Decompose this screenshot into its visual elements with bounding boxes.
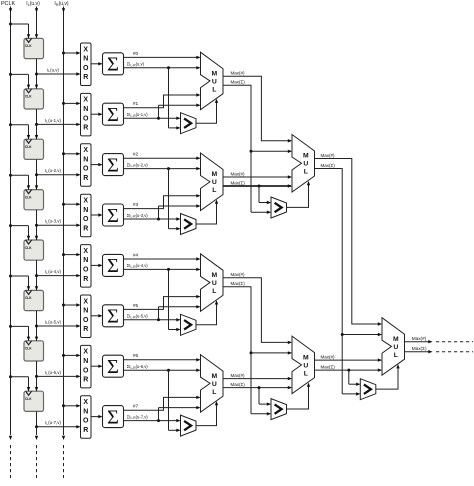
svg-text:Max(Σ): Max(Σ) (231, 80, 246, 85)
svg-text:#6: #6 (133, 353, 139, 359)
svg-text:IL(u-2,v): IL(u-2,v) (45, 168, 61, 174)
net label SUM IL-R(u-1,v) (127, 112, 149, 118)
svg-text:O: O (83, 367, 89, 374)
net label Max(#) MUX22 (321, 355, 336, 360)
wire SUM5 value to comparator (124, 318, 181, 321)
svg-text:Max(Σ): Max(Σ) (412, 346, 427, 351)
wire XNOR5 to SUM5 (91, 314, 103, 317)
wire XNOR1 to SUM1 (91, 113, 103, 116)
svg-text:Max(#): Max(#) (231, 373, 246, 378)
wire IR stub to XNOR5 (62, 303, 81, 306)
wire IR stub to XNOR2 (62, 152, 81, 155)
svg-text:IL(u,v): IL(u,v) (47, 67, 59, 73)
svg-text:Max(Σ): Max(Σ) (321, 365, 336, 370)
wire SUM6 value to mux (124, 369, 201, 372)
node IL(u-1,v) tap (35, 123, 38, 126)
svg-text:N: N (83, 308, 88, 315)
svg-text:Σ: Σ (107, 356, 119, 378)
wire MUX22 Max(S) to MUX3 input4 (315, 368, 383, 371)
svg-text:M: M (303, 153, 309, 160)
svg-text:U: U (212, 280, 217, 287)
wire IR stub to XNOR7 (62, 404, 81, 407)
node IL(u,v) tap (35, 73, 38, 76)
svg-text:ΣIL-R(u-7,v): ΣIL-R(u-7,v) (127, 414, 149, 420)
svg-text:CLK: CLK (25, 145, 32, 149)
svg-text:M: M (211, 171, 217, 178)
wire FF6 output to FF7 data input (35, 311, 38, 341)
node IL(u-5,v) tap (35, 325, 38, 328)
wire IL tap to XNOR4 (37, 274, 81, 277)
svg-text:IL(u-7,v): IL(u-7,v) (45, 420, 61, 426)
svg-text:X: X (83, 349, 88, 356)
flip-flop FF6 (24, 290, 44, 310)
svg-text:ΣIL-R(u,v): ΣIL-R(u,v) (127, 62, 145, 68)
svg-text:Σ: Σ (107, 154, 119, 176)
accumulator SUM7 (103, 406, 124, 429)
svg-text:#4: #4 (133, 252, 139, 258)
net label IL(u-5,v) (45, 319, 61, 325)
wire IR trunk (62, 7, 65, 441)
wire MUX22 Max(#) to MUX3 input3 (315, 358, 383, 361)
svg-text:M: M (211, 70, 217, 77)
svg-text:U: U (212, 179, 217, 186)
svg-text:CLK: CLK (25, 347, 32, 351)
net label Max(S) MUX21 (321, 163, 336, 168)
wire SUM1 value branch to mux (159, 104, 201, 119)
net label IL(u,v) input (26, 1, 40, 7)
svg-text:#5: #5 (133, 303, 139, 309)
wire PCLK branch to FF7 clock (9, 325, 30, 341)
wire IL data trunk top (35, 7, 38, 39)
wire CMP2 to mux select (196, 200, 218, 225)
svg-text:CLK: CLK (25, 296, 32, 300)
wire IL tap to XNOR7 (37, 425, 81, 428)
comparator CMP2 (181, 214, 197, 235)
net label Max(S) MUX2 (231, 180, 246, 185)
svg-text:Σ: Σ (107, 54, 119, 76)
net label Max(S) MUX22 (321, 365, 336, 370)
svg-text:R: R (83, 225, 88, 232)
wire MUX3 Max(S) output (405, 350, 433, 353)
wire SUM0 index to mux (124, 56, 201, 59)
svg-text:U: U (212, 381, 217, 388)
svg-text:M: M (211, 373, 217, 380)
net label Max(S) output (412, 346, 427, 351)
svg-text:R: R (83, 74, 88, 81)
svg-text:#1: #1 (133, 101, 139, 107)
net label Max(#) output (412, 336, 427, 341)
mux MUX2 (201, 153, 224, 211)
wire MUX21 Max(S) to MUX3 input2 (315, 169, 383, 337)
wire XNOR7 to SUM7 (91, 415, 103, 418)
wire MUX3 Max(S) to MUX22 input2 (223, 287, 292, 355)
wire XNOR2 to SUM2 (91, 163, 103, 166)
wire SUM1 value to comparator (124, 117, 181, 120)
svg-text:Max(#): Max(#) (321, 355, 336, 360)
wire XNOR3 to SUM3 (91, 213, 103, 216)
wire IL tap to XNOR0 (37, 72, 81, 75)
xnor gate XNOR3 (81, 194, 92, 237)
comparator CMP4 (181, 415, 197, 436)
wire SUM2 value branch to comparator (169, 169, 181, 231)
net label #7 (133, 404, 139, 410)
wire FF1 output to FF2 data input (35, 59, 38, 89)
svg-text:X: X (83, 46, 88, 53)
svg-text:R: R (83, 276, 88, 283)
accumulator SUM2 (103, 154, 124, 177)
wire SUM3 value to comparator (124, 217, 181, 220)
svg-text:IL(u-6,v): IL(u-6,v) (45, 370, 61, 376)
svg-text:N: N (83, 106, 88, 113)
wire IR trunk dashed continuation (63, 445, 65, 478)
svg-text:IL(u-3,v): IL(u-3,v) (45, 219, 61, 225)
wire CMP3 to mux select (196, 300, 218, 325)
mux MUX21 (292, 135, 315, 193)
wire PCLK branch to FF4 clock (9, 174, 30, 190)
svg-text:M: M (211, 272, 217, 279)
wire SUM4 value branch to comparator (169, 269, 181, 331)
wire SUM1 index to mux (124, 93, 201, 108)
wire MUX4 Max(S) branch to comparator CMP22 (259, 388, 271, 406)
accumulator SUM4 (103, 254, 124, 277)
net label #2 (133, 152, 139, 158)
wire FF3 output to FF4 data input (35, 159, 38, 189)
accumulator SUM6 (103, 355, 124, 378)
wire MUX1 Max(S) branch to comparator CMP21 (251, 151, 271, 214)
svg-text:ΣIL-R(u-6,v): ΣIL-R(u-6,v) (127, 364, 149, 370)
wire SUM5 index to mux (124, 295, 201, 310)
net label IL(u,v) (47, 67, 59, 73)
wire SUM6 value branch to comparator (169, 370, 181, 432)
wire XNOR4 to SUM4 (91, 264, 103, 267)
svg-text:PCLK: PCLK (1, 1, 15, 7)
node IL(u-7,v) tap (35, 425, 38, 428)
net label #3 (133, 202, 139, 208)
svg-text:L: L (212, 187, 216, 194)
svg-text:U: U (303, 161, 308, 168)
xnor gate XNOR2 (81, 144, 92, 187)
wire FF8 output tail (35, 411, 38, 440)
wire SUM3 value branch to mux (159, 204, 201, 219)
svg-text:M: M (303, 354, 309, 361)
comparator CMP3 (181, 314, 197, 335)
wire IL chain dashed continuation (36, 445, 38, 478)
net label IL(u-4,v) (45, 269, 61, 275)
svg-text:Max(Σ): Max(Σ) (231, 180, 246, 185)
comparator CMP3 (360, 379, 376, 400)
svg-text:#3: #3 (133, 202, 139, 208)
flip-flop FF4 (24, 190, 44, 210)
net label #5 (133, 303, 139, 309)
svg-text:#7: #7 (133, 404, 139, 410)
svg-text:X: X (83, 97, 88, 104)
wire MUX3 Max(#) output (405, 340, 433, 343)
wire CMP4 to mux select (196, 401, 218, 426)
wire MUX21 Max(S) branch to comparator CMP3 (342, 335, 360, 396)
svg-text:Max(#): Max(#) (231, 171, 246, 176)
svg-text:Σ: Σ (107, 306, 119, 328)
svg-text:N: N (83, 358, 88, 365)
comparator CMP1 (181, 113, 197, 134)
svg-text:N: N (83, 207, 88, 214)
wire Max(#) dashed continuation (436, 341, 473, 343)
net label IL(u-6,v) (45, 370, 61, 376)
xnor gate XNOR6 (81, 345, 92, 388)
svg-text:ΣIL-R(u-2,v): ΣIL-R(u-2,v) (127, 162, 149, 168)
wire IL tap to XNOR6 (37, 375, 81, 378)
svg-text:Max(#): Max(#) (231, 71, 246, 76)
wire FF5 output to FF6 data input (35, 260, 38, 290)
svg-text:Σ: Σ (107, 255, 119, 277)
accumulator SUM0 (103, 53, 124, 76)
svg-text:IL(u-5,v): IL(u-5,v) (45, 319, 61, 325)
wire SUM3 index to mux (124, 194, 201, 209)
net label SUM IL-R(u-3,v) (127, 213, 149, 219)
xnor gate XNOR4 (81, 245, 92, 288)
wire PCLK branch to FF8 clock (9, 375, 30, 391)
wire CMP22 to MUX22 select (287, 383, 311, 409)
flip-flop FF7 (24, 341, 44, 361)
svg-text:U: U (303, 362, 308, 369)
wire MUX1 Max(S) to MUX21 input2 (223, 85, 292, 153)
net label IL(u-3,v) (45, 219, 61, 225)
net label Max(S) MUX3 (231, 281, 246, 286)
wire IL tap to XNOR1 (37, 123, 81, 126)
wire MUX3 Max(S) branch to comparator CMP22 (251, 353, 271, 416)
wire SUM5 value branch to mux (159, 305, 201, 320)
net label #1 (133, 101, 139, 107)
wire SUM4 value to mux (124, 268, 201, 271)
svg-text:R: R (83, 175, 88, 182)
wire IR stub to XNOR6 (62, 354, 81, 357)
svg-text:ΣIL-R(u-5,v): ΣIL-R(u-5,v) (127, 314, 149, 320)
svg-text:X: X (83, 248, 88, 255)
net label SUM IL-R(u-2,v) (127, 162, 149, 168)
wire MUX2 Max(S) to MUX21 input4 (223, 184, 292, 187)
svg-text:ΣIL-R(u-3,v): ΣIL-R(u-3,v) (127, 213, 149, 219)
net label PCLK (1, 1, 15, 7)
wire MUX3 Max(#) to MUX22 input1 (223, 278, 292, 344)
wire PCLK branch to FF5 clock (9, 224, 30, 240)
svg-text:L: L (212, 86, 216, 93)
node IL(u-6,v) tap (35, 375, 38, 378)
comparator CMP21 (271, 197, 287, 218)
wire IR stub to XNOR3 (62, 203, 81, 206)
wire MUX22 Max(S) branch to comparator CMP3 (349, 370, 361, 386)
net label Max(#) MUX2 (231, 171, 246, 176)
svg-text:O: O (83, 216, 89, 223)
wire MUX21 Max(#) to MUX3 input1 (315, 159, 383, 326)
svg-text:O: O (83, 166, 89, 173)
svg-text:X: X (83, 198, 88, 205)
wire SUM7 index to mux (124, 396, 201, 411)
net label Max(S) MUX1 (231, 80, 246, 85)
accumulator SUM3 (103, 204, 124, 227)
net label #4 (133, 252, 139, 258)
flip-flop FF2 (24, 89, 44, 109)
wire PCLK branch to FF3 clock (9, 123, 30, 139)
svg-text:Max(#): Max(#) (321, 153, 336, 158)
svg-text:X: X (83, 147, 88, 154)
accumulator SUM1 (103, 103, 124, 126)
wire SUM0 value branch to comparator (169, 68, 181, 130)
wire PCLK branch to FF1 clock (9, 23, 30, 39)
svg-text:X: X (83, 399, 88, 406)
wire SUM2 index to mux (124, 157, 201, 160)
wire XNOR6 to SUM6 (91, 365, 103, 368)
svg-text:N: N (83, 156, 88, 163)
net label Max(S) MUX4 (231, 382, 246, 387)
wire SUM7 value to comparator (124, 419, 181, 422)
svg-text:L: L (212, 288, 216, 295)
svg-text:L: L (394, 352, 398, 359)
svg-text:O: O (83, 317, 89, 324)
net label IL(u-7,v) (45, 420, 61, 426)
svg-text:M: M (393, 336, 399, 343)
svg-text:R: R (83, 377, 88, 384)
svg-text:L: L (212, 389, 216, 396)
node IL(u-2,v) tap (35, 173, 38, 176)
wire MUX4 Max(#) to MUX22 input3 (223, 377, 292, 380)
svg-text:ΣIL-R(u-4,v): ΣIL-R(u-4,v) (127, 263, 149, 269)
net label Max(#) MUX3 (231, 272, 246, 277)
wire FF4 output to FF5 data input (35, 210, 38, 240)
wire Max(S) dashed continuation (436, 351, 473, 353)
wire IR stub to XNOR4 (62, 253, 81, 256)
wire MUX2 Max(S) branch to comparator CMP21 (259, 186, 271, 204)
flip-flop FF8 (24, 391, 44, 411)
flip-flop FF5 (24, 240, 44, 260)
node IL(u-4,v) tap (35, 274, 38, 277)
accumulator SUM5 (103, 305, 124, 328)
svg-text:L: L (304, 169, 308, 176)
svg-text:O: O (83, 115, 89, 122)
mux MUX22 (292, 336, 315, 394)
wire MUX1 Max(#) to MUX21 input1 (223, 76, 292, 142)
wire MUX2 Max(#) to MUX21 input3 (223, 175, 292, 178)
xnor gate XNOR1 (81, 93, 92, 135)
net label #0 (133, 51, 139, 57)
wire SUM2 value to mux (124, 167, 201, 170)
svg-text:CLK: CLK (25, 397, 32, 401)
svg-text:#2: #2 (133, 152, 139, 158)
wire IL tap to XNOR2 (37, 173, 81, 176)
wire SUM4 index to mux (124, 257, 201, 260)
svg-text:IL(u-4,v): IL(u-4,v) (45, 269, 61, 275)
svg-text:R: R (83, 427, 88, 434)
svg-text:Max(#): Max(#) (231, 272, 246, 277)
svg-text:U: U (393, 344, 398, 351)
wire IR stub to XNOR0 (62, 51, 81, 54)
svg-text:Max(Σ): Max(Σ) (231, 382, 246, 387)
wire MUX4 Max(S) to MUX22 input4 (223, 386, 292, 389)
net label SUM IL-R(u-6,v) (127, 364, 149, 370)
net label #6 (133, 353, 139, 359)
wire FF7 output to FF8 data input (35, 361, 38, 391)
svg-text:CLK: CLK (25, 246, 32, 250)
flip-flop FF1 (24, 38, 44, 58)
wire PCLK trunk (9, 7, 12, 441)
wire SUM7 value branch to mux (159, 406, 201, 421)
svg-text:Max(Σ): Max(Σ) (321, 163, 336, 168)
wire PCLK branch to FF6 clock (9, 275, 30, 291)
svg-text:ΣIL-R(u-1,v): ΣIL-R(u-1,v) (127, 112, 149, 118)
wire XNOR0 to SUM0 (91, 62, 103, 65)
wire PCLK branch to FF2 clock (9, 73, 30, 89)
svg-text:Σ: Σ (107, 104, 119, 126)
wire CMP21 to MUX21 select (287, 181, 311, 207)
wire CMP3 to MUX3 select (376, 364, 400, 389)
wire IR stub to XNOR1 (62, 102, 81, 105)
svg-text:O: O (83, 267, 89, 274)
svg-text:Σ: Σ (107, 205, 119, 227)
flip-flop FF3 (24, 139, 44, 159)
wire SUM6 index to mux (124, 358, 201, 361)
net label Max(#) MUX21 (321, 153, 336, 158)
svg-text:N: N (83, 257, 88, 264)
svg-text:N: N (83, 408, 88, 415)
net label IL(u-2,v) (45, 168, 61, 174)
svg-text:Max(Σ): Max(Σ) (231, 281, 246, 286)
svg-text:O: O (83, 65, 89, 72)
comparator CMP22 (271, 399, 287, 420)
node IL(u-3,v) tap (35, 224, 38, 227)
svg-text:R: R (83, 125, 88, 132)
net label SUM IL-R(u-4,v) (127, 263, 149, 269)
wire IL tap to XNOR3 (37, 224, 81, 227)
svg-text:Max(#): Max(#) (412, 336, 427, 341)
svg-text:CLK: CLK (25, 44, 32, 48)
net label SUM IL-R(u,v) (127, 62, 145, 68)
net label IR(u,v) input (54, 1, 68, 7)
net label Max(#) MUX1 (231, 71, 246, 76)
wire FF2 output to FF3 data input (35, 109, 38, 139)
svg-text:CLK: CLK (25, 95, 32, 99)
xnor gate XNOR0 (81, 43, 92, 86)
net label IL(u-1,v) (45, 118, 61, 124)
svg-text:L: L (304, 370, 308, 377)
svg-text:U: U (212, 78, 217, 85)
mux MUX3 (382, 318, 405, 376)
wire IL tap to XNOR5 (37, 324, 81, 327)
wire PCLK trunk dashed continuation (10, 445, 12, 478)
mux MUX3 (201, 254, 224, 311)
net label SUM IL-R(u-7,v) (127, 414, 149, 420)
svg-text:N: N (83, 56, 88, 63)
net label Max(#) MUX4 (231, 373, 246, 378)
svg-text:IL(u-1,v): IL(u-1,v) (45, 118, 61, 124)
svg-text:R: R (83, 326, 88, 333)
svg-text:Σ: Σ (107, 406, 119, 428)
svg-text:CLK: CLK (25, 195, 32, 199)
xnor gate XNOR7 (81, 396, 92, 439)
net label SUM IL-R(u-5,v) (127, 314, 149, 320)
mux MUX1 (201, 52, 224, 109)
xnor gate XNOR5 (81, 295, 92, 338)
svg-text:X: X (83, 298, 88, 305)
wire SUM0 value to mux (124, 66, 201, 69)
mux MUX4 (201, 355, 224, 413)
svg-text:#0: #0 (133, 51, 139, 57)
wire CMP1 to mux select (196, 99, 218, 124)
svg-text:O: O (83, 418, 89, 425)
